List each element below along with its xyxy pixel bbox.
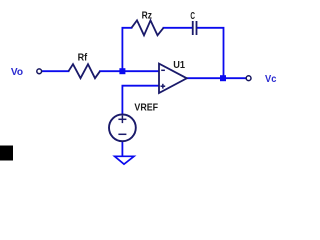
svg-text:Rf: Rf	[78, 52, 88, 63]
svg-text:C: C	[190, 11, 195, 22]
svg-text:U1: U1	[173, 60, 185, 71]
svg-text:Rz: Rz	[142, 11, 152, 22]
svg-text:Vc: Vc	[265, 74, 277, 85]
svg-text:Vo: Vo	[11, 67, 23, 78]
svg-text:VREF: VREF	[134, 103, 158, 114]
